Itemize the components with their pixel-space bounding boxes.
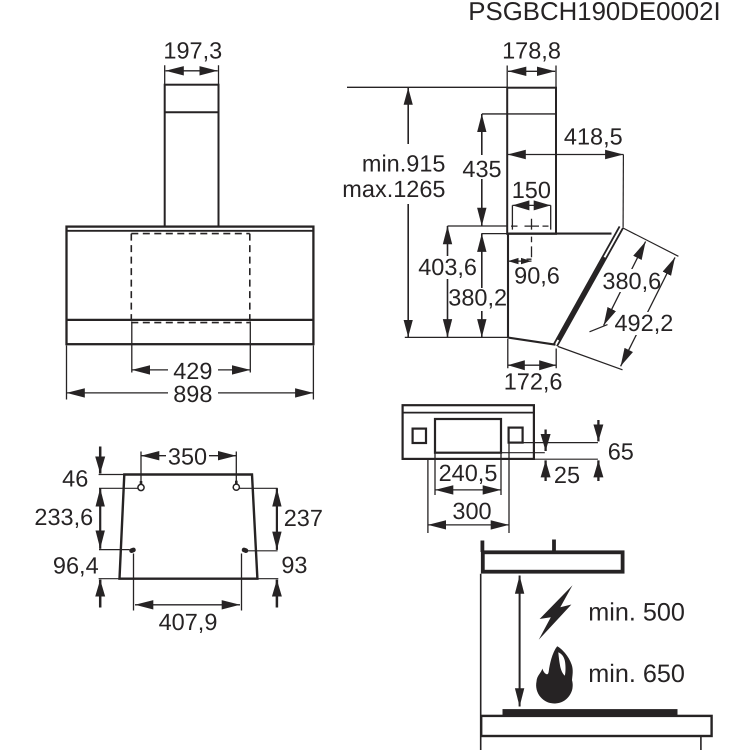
duct centre dashed line below — [527, 237, 532, 260]
svg-text:300: 300 — [452, 498, 491, 524]
svg-text:25: 25 — [554, 462, 580, 488]
dim 435 arrow — [481, 114, 483, 226]
min/max top reference line — [347, 86, 507, 88]
svg-text:178,8: 178,8 — [502, 37, 561, 63]
bottom edge reference extensions — [99, 578, 279, 580]
panel apex extension line — [623, 228, 678, 256]
line A (65 top reference) — [523, 442, 598, 444]
side hood top edge — [507, 233, 612, 235]
dim 898 arrow — [67, 392, 314, 394]
dim 429 label — [168, 358, 218, 384]
svg-text:197,3: 197,3 — [163, 37, 222, 63]
dim 65 arrows — [597, 420, 599, 441]
dim 197,3 extension lines — [165, 65, 219, 84]
dim 233,6 arrow — [99, 488, 101, 549]
svg-text:min.915: min.915 — [362, 151, 446, 177]
inclined glass panel outer line — [557, 228, 623, 346]
slot reference line (left) — [99, 549, 130, 551]
wall stub above hood — [480, 541, 484, 553]
dim 380,6 arrow — [604, 242, 646, 326]
dim 46 down arrow — [99, 447, 102, 474]
svg-text:46: 46 — [62, 466, 88, 492]
dim 435 label — [460, 155, 504, 182]
dim 350 extension lines — [141, 452, 236, 483]
glass panel thick segment — [559, 258, 605, 341]
dim 403,6 label — [418, 254, 477, 280]
dim 350 label — [166, 444, 209, 470]
min/max bottom reference line — [405, 336, 508, 338]
dim 90,6 arrow — [508, 260, 532, 262]
svg-text:PSGBCH190DE0002I: PSGBCH190DE0002I — [468, 0, 720, 26]
dashed inner rectangle — [131, 234, 250, 323]
dim 403,6 arrow — [447, 226, 449, 337]
line B (25 top reference) — [501, 452, 545, 454]
cooktop surface bar — [503, 709, 678, 716]
cabinet right line — [700, 736, 702, 750]
hole centre reference line (right) — [239, 487, 278, 489]
svg-text:380,2: 380,2 — [448, 285, 507, 311]
trapezoid outline — [120, 475, 258, 579]
dim 350 arrow — [141, 455, 236, 457]
svg-text:min. 500: min. 500 — [588, 599, 685, 627]
dim 429 extension lines — [132, 322, 251, 373]
svg-text:150: 150 — [512, 177, 551, 203]
slot reference line (right) — [248, 550, 278, 552]
dim 93 up arrow — [276, 580, 279, 608]
svg-text:350: 350 — [168, 444, 207, 470]
bracket outer box — [403, 405, 534, 459]
left slot mark — [129, 547, 137, 554]
svg-text:233,6: 233,6 — [34, 504, 93, 530]
front hood bottom band line — [67, 319, 314, 321]
svg-text:418,5: 418,5 — [564, 124, 623, 150]
front chimney — [165, 85, 219, 227]
svg-text:65: 65 — [608, 439, 634, 465]
dim 197,3 arrow — [166, 70, 218, 72]
lightning bolt icon — [539, 585, 573, 640]
dim 418,5 arrow — [508, 154, 624, 156]
dim 172,6 arrow — [508, 364, 556, 366]
dim 150 arrow — [512, 204, 550, 206]
front hood top inner line — [67, 230, 314, 232]
hood box — [483, 552, 623, 571]
right keyhole — [233, 484, 239, 490]
dim min.915 max.1265 arrow — [407, 87, 409, 337]
dim 172,6 extension lines — [508, 339, 556, 368]
inclined glass panel inner line — [554, 226, 620, 344]
dim 300 extension lines — [428, 444, 509, 534]
flame icon — [536, 646, 573, 703]
dim 492,2 label — [614, 310, 673, 336]
front chimney joint line — [165, 111, 219, 113]
svg-text:max.1265: max.1265 — [342, 176, 445, 202]
clearance dim arrow — [519, 576, 521, 707]
dim 898 label — [168, 381, 218, 407]
svg-text:93: 93 — [281, 552, 307, 578]
dim 380,2 label — [448, 285, 507, 311]
line C (bottom reference extension) — [534, 458, 598, 460]
top edge reference line — [99, 474, 125, 476]
dim 237 arrow — [276, 488, 278, 550]
dim 25 arrows — [544, 430, 546, 452]
svg-text:172,6: 172,6 — [504, 369, 563, 395]
svg-text:96,4: 96,4 — [53, 553, 99, 579]
side chimney — [507, 88, 556, 234]
wall line — [480, 574, 482, 750]
dim 380,6 label — [602, 268, 661, 294]
dim 407,9 arrow — [135, 604, 240, 606]
side hood bottom edge — [507, 337, 555, 344]
bracket box inner top line — [403, 412, 534, 414]
dim 240,5 extension lines — [435, 454, 501, 496]
svg-text:240,5: 240,5 — [439, 460, 498, 486]
svg-text:492,2: 492,2 — [614, 310, 673, 336]
mid reference line (bottom of 435) — [448, 225, 508, 227]
front hood body — [67, 227, 314, 345]
svg-text:435: 435 — [462, 156, 501, 182]
right slot mark — [241, 547, 249, 554]
dim 380,2 arrow — [481, 234, 483, 338]
dim 178,8 arrow — [508, 70, 555, 72]
dim 898 extension lines — [67, 346, 314, 400]
dim 150 bracket — [512, 205, 550, 229]
dim 407,9 extension lines — [134, 554, 242, 611]
bracket left square — [413, 429, 426, 443]
dim 96,4 up arrow — [99, 580, 102, 608]
chimney stub — [552, 540, 556, 552]
svg-text:407,9: 407,9 — [159, 609, 218, 635]
svg-text:237: 237 — [284, 505, 323, 531]
dim 178,8 extension lines — [507, 66, 556, 88]
dim 429 arrow — [132, 369, 251, 371]
left keyhole — [138, 484, 144, 490]
bracket right square — [509, 428, 523, 443]
bracket inner rectangle — [435, 419, 501, 453]
svg-text:403,6: 403,6 — [418, 254, 477, 280]
side hood left edge — [507, 234, 509, 338]
492,2 lower extension line — [558, 347, 623, 370]
hole centre reference line (left) — [99, 487, 138, 489]
hood top reference line — [481, 233, 507, 235]
418,5 right extension line — [622, 155, 624, 228]
svg-text:min. 650: min. 650 — [588, 660, 685, 688]
svg-text:380,6: 380,6 — [602, 268, 661, 294]
cooktop body — [481, 716, 711, 736]
dim 240,5 arrow — [435, 489, 501, 491]
dim 492,2 arrow — [621, 257, 675, 366]
duct centre dashed cross — [511, 219, 549, 230]
side chimney joint line — [482, 113, 556, 115]
dim 300 arrow — [428, 524, 509, 526]
svg-text:898: 898 — [173, 381, 212, 407]
svg-text:90,6: 90,6 — [514, 263, 560, 289]
380,6 lower extension line — [590, 325, 608, 332]
